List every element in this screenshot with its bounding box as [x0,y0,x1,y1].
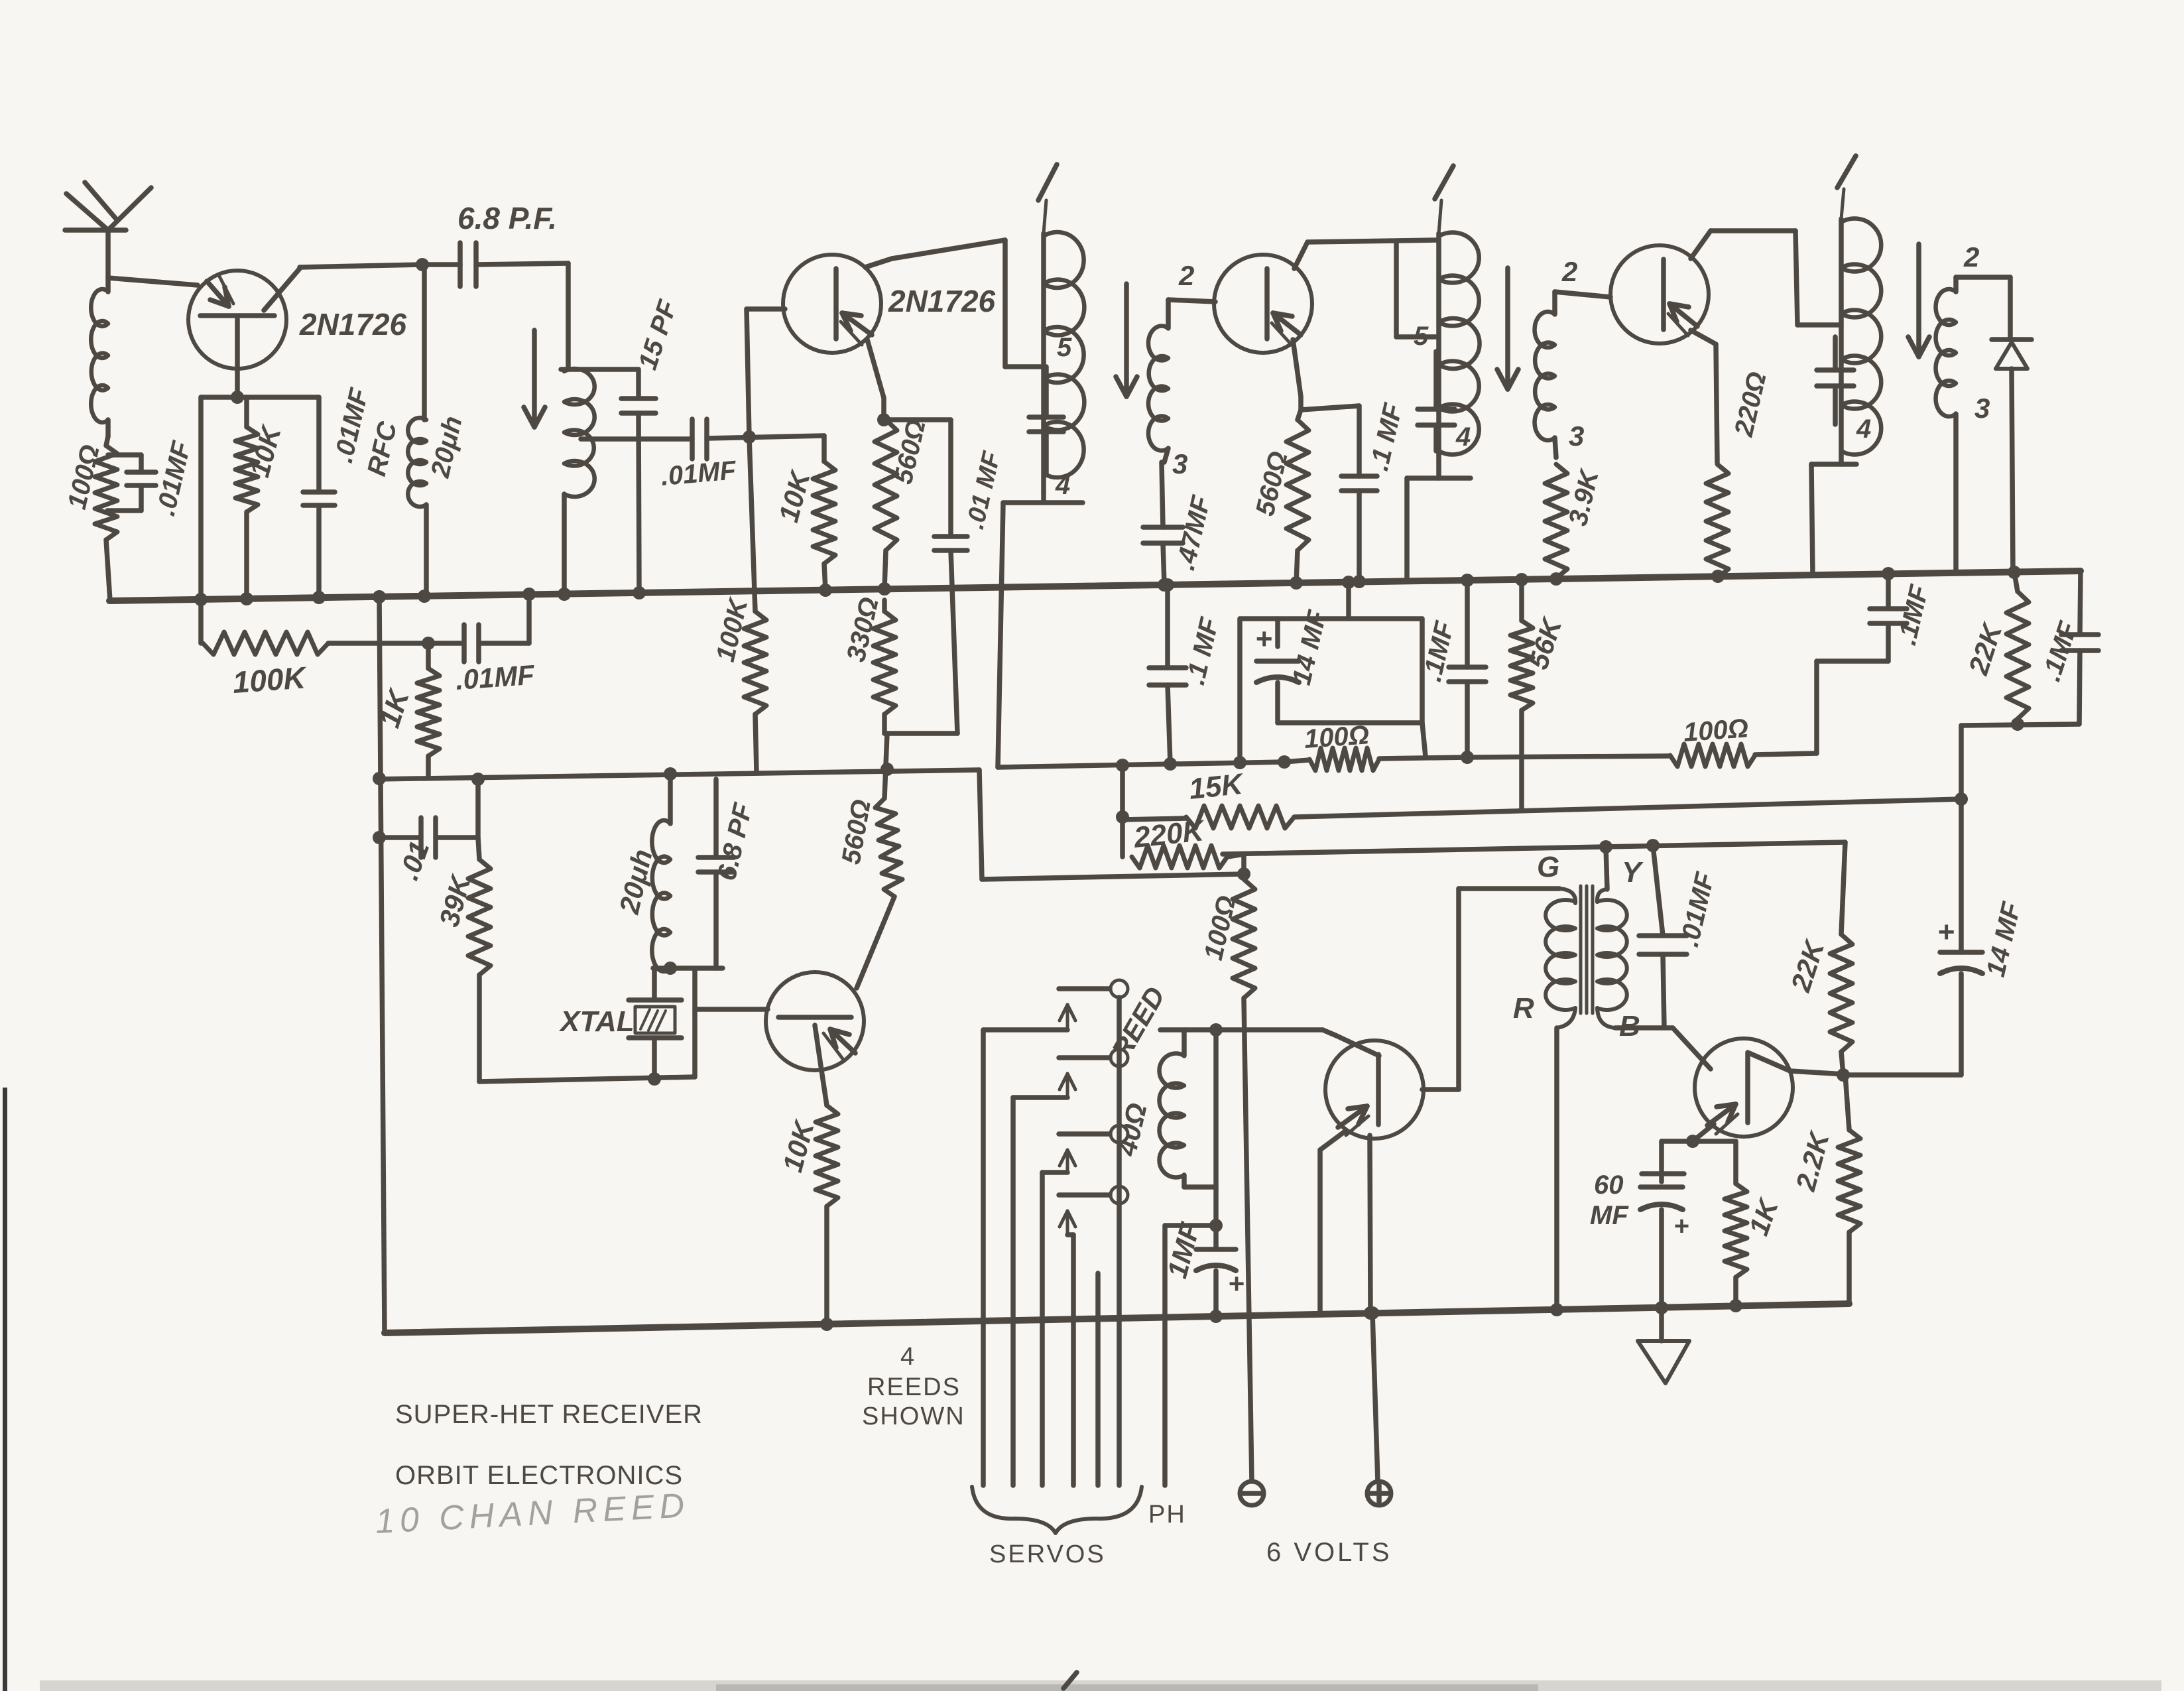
svg-text:4: 4 [1055,471,1070,500]
svg-text:15 PF: 15 PF [633,296,683,373]
svg-text:6.8 P.F.: 6.8 P.F. [457,201,557,235]
resistor 1K [373,637,440,778]
label 4 REEDS SHOWN [862,1343,965,1430]
transistor Q6 [1695,1038,1793,1137]
resistor 1K audio [1725,1141,1785,1312]
capacitor 6.8PF [422,201,568,286]
wire reed common [1117,997,1122,1485]
wire Q7 base [695,1007,768,1012]
svg-text:SHOWN: SHOWN [862,1403,965,1430]
wire audio R [1550,1008,1575,1316]
wire IFT2 tap5 [1396,241,1439,337]
inductor L1 antenna coil [91,289,108,436]
capacitor .1MF out [1961,571,2098,725]
svg-text:MF: MF [1590,1201,1629,1230]
svg-text:R: R [1513,992,1534,1025]
svg-text:6.8 PF: 6.8 PF [712,800,758,883]
wire servo line5 [1095,1273,1101,1485]
svg-text:100Ω: 100Ω [1683,714,1750,747]
capacitor .01MF audio [1639,845,1721,1028]
terminal plus [1366,1306,1391,1505]
label SUPER-HET RECEIVER [395,1400,703,1429]
svg-text:6 VOLTS: 6 VOLTS [1266,1538,1392,1567]
capacitor 60MF [1590,1141,1689,1308]
svg-text:100K: 100K [231,660,308,700]
svg-text:5: 5 [1057,333,1072,362]
crystal XTAL [558,968,682,1079]
scan mark bottom [1063,1672,1077,1688]
svg-text:56K: 56K [1522,613,1568,672]
svg-text:Y: Y [1622,856,1644,889]
inductor RFC 20μh [362,265,468,596]
wire tank [653,966,723,971]
resistor 10K Q2 [772,436,835,597]
svg-text:2N1726: 2N1726 [888,284,996,318]
label R [1513,992,1534,1025]
transformer audio primary [1546,900,1575,1010]
svg-text:.1MF: .1MF [1892,582,1935,648]
inductor IFT1 primary [1038,164,1084,500]
label G [1537,851,1559,883]
svg-text:.1 MF: .1 MF [1365,400,1408,473]
svg-text:ORBIT ELECTRONICS: ORBIT ELECTRONICS [395,1461,683,1490]
capacitor .1MF if3 [1418,574,1486,757]
transformer audio G [1459,889,1575,903]
svg-text:39K: 39K [433,871,477,930]
inductor IFT3 secondary [1936,241,2010,573]
svg-text:10 CHAN REED: 10 CHAN REED [375,1486,691,1541]
svg-text:.01MF: .01MF [151,438,197,519]
capacitor IFT3 [1817,337,1854,424]
svg-text:4: 4 [1856,414,1871,444]
svg-text:220Ω: 220Ω [1729,369,1772,440]
wire B- bus [109,571,2081,601]
svg-text:.01MF: .01MF [454,659,536,696]
svg-text:.01MF: .01MF [660,456,738,491]
wire line A [998,755,1291,772]
resistor 22K out [1963,572,2029,731]
inductor IFT2 primary [1414,166,1480,456]
svg-text:100Ω: 100Ω [1199,893,1242,963]
inductor tuned coil [561,263,638,594]
resistor 22K audio [1785,934,1852,1082]
wire Q5 base [1422,889,1459,1090]
diode detector [1992,277,2032,579]
svg-text:60: 60 [1594,1170,1624,1200]
svg-text:.01: .01 [393,837,435,884]
capacitor .01MF coupling [581,419,824,491]
resistor 100Ω lineA2 [1670,714,1755,767]
svg-text:3.9K: 3.9K [1563,466,1605,529]
resistor 100Ω lineA [1284,720,1474,771]
ground [1638,1301,1689,1383]
resistor 560Ω Q3 [1250,410,1309,590]
wire reed top [1160,1023,1323,1036]
resistor 560Ω osc [837,733,902,988]
svg-text:1MF: 1MF [1161,1219,1205,1282]
wire Q2 emitter [867,340,951,426]
inductor 40Ω reed coil [1105,981,1216,1187]
svg-text:2: 2 [1963,241,1979,273]
svg-text:XTAL: XTAL [558,1005,635,1038]
transistor Q1 2N1726 [188,271,407,369]
label PH [1148,1501,1186,1529]
capacitor IFT1 [1029,367,1063,473]
wire left vertical [373,590,386,1333]
arrow IFT3 [1908,244,1929,357]
resistor 330Ω [841,595,957,733]
resistor 56K [1510,573,1568,810]
wire Q1 collector [264,258,429,310]
capacitor 14MF out [1843,799,2027,1075]
svg-text:+: + [1228,1268,1244,1299]
wire line A right [1467,753,1817,757]
scan edge bottom [40,1680,2161,1691]
wire AGC line [373,763,1250,881]
capacitor .47MF [1143,462,1217,592]
label SERVOS [989,1540,1106,1568]
svg-text:2: 2 [1178,260,1194,291]
svg-text:14 MF: 14 MF [1981,899,2027,979]
capacitor .01 osc [379,773,485,884]
svg-text:.1 MF: .1 MF [1181,614,1225,688]
capacitor .1MF det [1870,567,1935,661]
svg-text:REEDS: REEDS [867,1373,961,1401]
svg-text:22K: 22K [1785,935,1831,995]
svg-text:SERVOS: SERVOS [989,1540,1106,1568]
wire audio line [1223,839,1845,934]
label ORBIT ELECTRONICS [395,1461,683,1490]
wire det filter [1817,661,1888,753]
wire Q1 emitter [108,278,198,285]
label Y [1622,856,1644,889]
transistor Q4 [1610,245,1709,344]
capacitor 6.8PF osc [698,779,758,968]
capacitor 1MF [1161,1030,1244,1323]
svg-text:20μh: 20μh [426,413,468,481]
transistor Q3 [1214,255,1312,353]
capacitor IFT2 [1418,351,1455,451]
wire Q1 base [201,319,319,643]
wire Q2 collector [865,240,1044,367]
svg-text:4: 4 [900,1343,914,1371]
resistor 10K Q1 [235,397,287,599]
wire AVC line [1294,792,1968,817]
resistor 220K [1122,814,1244,874]
antenna [65,182,151,292]
svg-text:3: 3 [1569,420,1584,452]
resistor 100K Q2 [711,437,766,772]
capacitor .1MF Q3 [1341,400,1408,588]
svg-text:4: 4 [1455,422,1471,452]
wire IFT3 pin4 [1811,456,1856,575]
svg-text:560Ω: 560Ω [837,797,877,866]
capacitor .1MF agc [1149,578,1225,764]
svg-text:2: 2 [1561,256,1577,287]
inductor IFT3 primary [1837,156,1881,456]
svg-text:.01MF: .01MF [1675,869,1721,950]
resistor 10K osc [776,1105,838,1331]
resistor 100Ω reed [1199,879,1255,1481]
wire audio B [1615,1028,1711,1069]
wire Q3 collector [1294,240,1439,269]
resistor 100Ω antenna [62,436,117,601]
wire Q5 lead2 [1320,1131,1346,1314]
label B [1619,1010,1640,1042]
label 6 VOLTS [1266,1538,1392,1567]
svg-text:100Ω: 100Ω [1304,720,1370,754]
svg-text:G: G [1537,851,1559,883]
wire Q6 collector [1749,1053,1845,1074]
svg-text:3: 3 [1172,448,1187,479]
resistor 220Ω [1706,369,1772,583]
inductor IFT2 secondary [1535,256,1610,458]
capacitor .01MF Q2 emitter [934,420,1006,733]
svg-text:+: + [1937,916,1955,948]
capacitor .01MF Q1 base [303,385,375,597]
transformer audio core [1581,886,1593,1013]
svg-text:+: + [1673,1212,1689,1241]
wire audio Y [1606,847,1607,889]
terminal minus [1240,1481,1264,1505]
wire + rail [385,1304,1849,1333]
wire Q3 emitter [1293,340,1359,410]
wire det out [1959,725,1964,799]
svg-text:10K: 10K [772,466,816,525]
wire Q5 collector [1323,1030,1379,1056]
svg-text:RFC: RFC [362,418,403,479]
node bus dots left [194,588,571,606]
arrow tuning [524,330,545,427]
wire IFT1 pin4 [998,492,1083,767]
arrow IFT2 [1497,268,1518,389]
resistor 3.9K [1545,464,1605,586]
resistor 2.2K [1790,1074,1860,1304]
transistor Q7 osc [766,972,864,1070]
wire IFT2 pin4 [1407,456,1471,581]
resistor 15K [1116,765,1294,828]
capacitor .01MF bias [428,594,536,696]
svg-text:.01 MF: .01 MF [961,448,1006,532]
transformer audio secondary [1597,889,1627,1028]
wire Q4 collector [1691,231,1841,325]
wire osc loop [479,968,695,1086]
svg-text:1K: 1K [1742,1194,1784,1239]
svg-text:22K: 22K [1963,618,2009,678]
resistor 39K [433,838,491,1082]
capacitor 15PF [621,296,683,599]
svg-text:SUPER-HET RECEIVER: SUPER-HET RECEIVER [395,1400,703,1429]
wire Q4 emitter [1691,330,1717,462]
svg-text:2.2K: 2.2K [1790,1127,1835,1194]
label 10 CHAN REED [375,1486,691,1541]
transistor Q2 2N1726 [783,255,996,353]
svg-text:3: 3 [1974,393,1990,424]
wire Q5 emitter [1364,1135,1377,1320]
resistor 100K bias [203,632,428,700]
scan edge left [3,1088,7,1691]
wire Q7 emitter [815,1025,827,1105]
capacitor 14MF [1240,576,1426,763]
inductor IFT1 secondary [1148,260,1215,479]
capacitor .01MF antenna [107,438,197,519]
svg-text:10K: 10K [776,1116,820,1175]
reed switch bank [983,980,1128,1485]
arrow IFT1 [1116,284,1137,397]
svg-text:2N1726: 2N1726 [299,307,407,342]
wire Q2 base [747,309,785,437]
wire Q6 emitter [1662,1124,1736,1148]
inductor 20μh [613,774,677,975]
transistor Q5 [1325,1040,1424,1139]
brace servos [972,1487,1142,1533]
svg-text:.47MF: .47MF [1171,492,1217,573]
resistor 560Ω Q2 [875,417,932,595]
svg-text:PH: PH [1148,1501,1186,1529]
svg-text:+: + [1255,623,1272,655]
svg-text:15K: 15K [1187,767,1246,806]
wire PH [1165,1225,1216,1485]
